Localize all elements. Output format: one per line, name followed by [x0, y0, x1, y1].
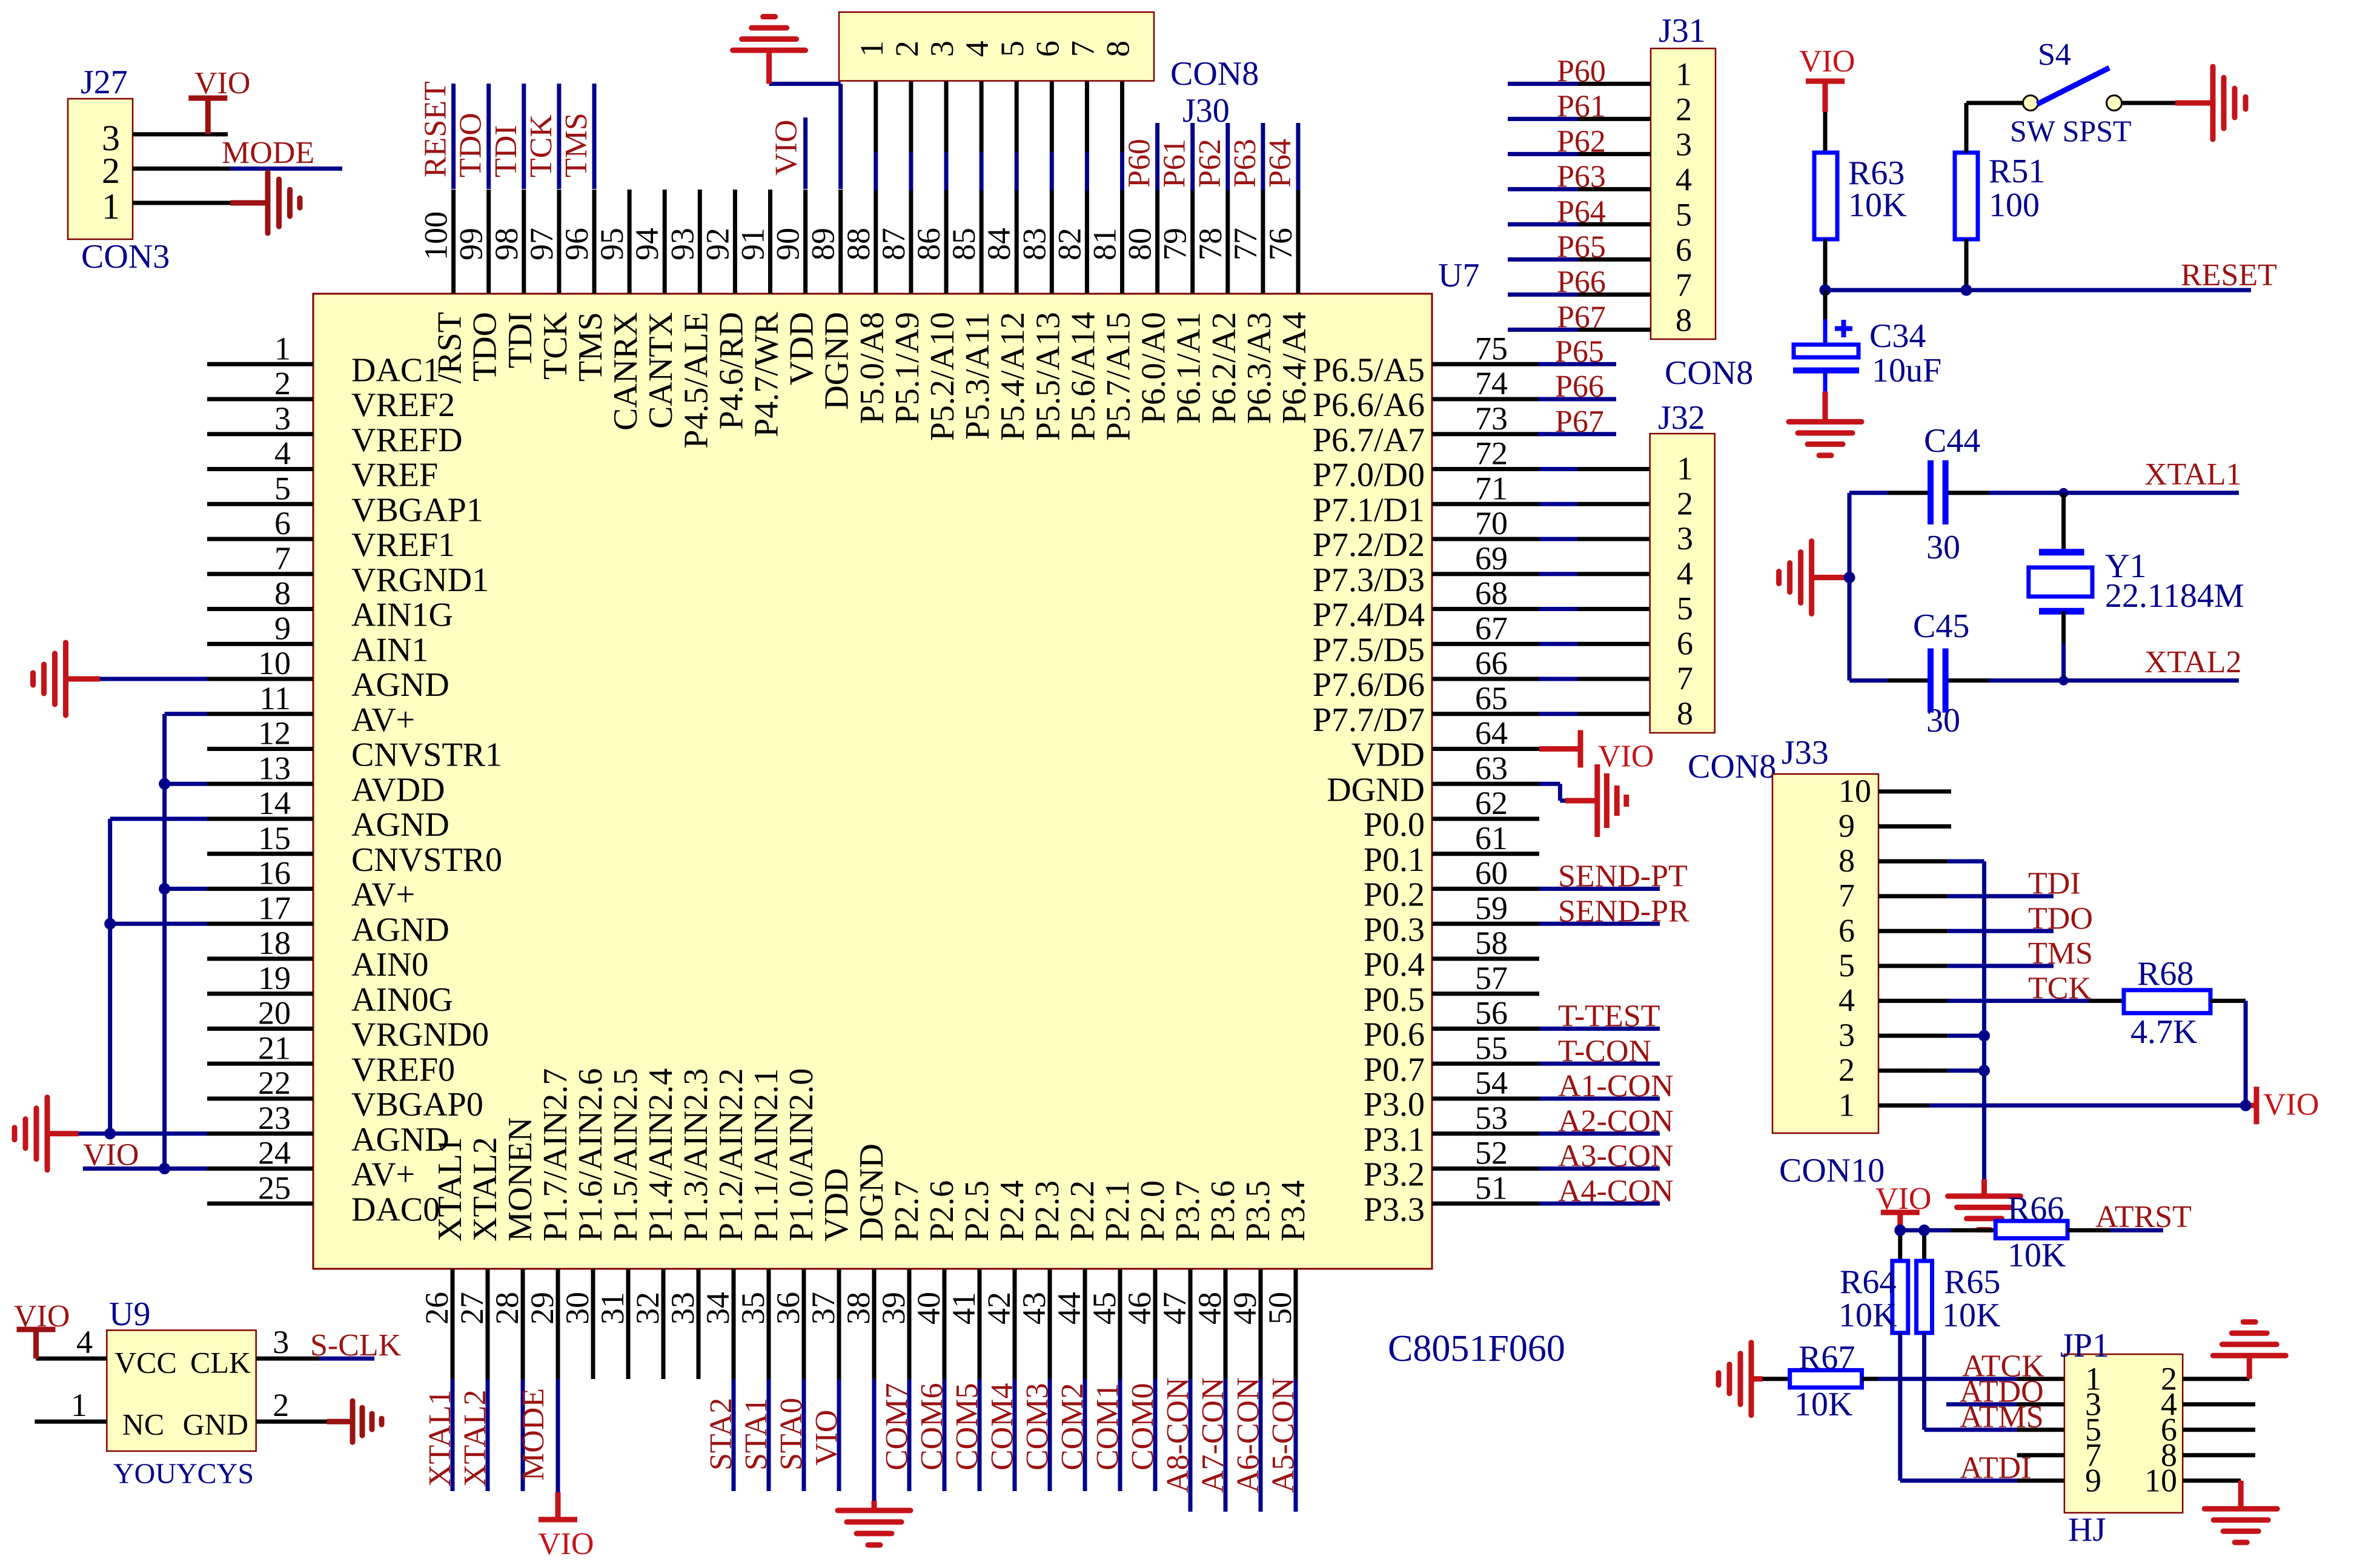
svg-text:15: 15	[258, 820, 291, 856]
ground (left of pin 23)	[15, 1097, 79, 1170]
J33 pin number 5	[1838, 947, 1855, 984]
wire J31 pin 3 net P62	[1508, 152, 1651, 156]
svg-text:25: 25	[258, 1169, 291, 1206]
JP1 pin number 9	[2085, 1463, 2101, 1499]
ground (J27 pin 1)	[230, 173, 300, 233]
svg-text:J31: J31	[1659, 12, 1706, 50]
junction on AV+ rail row16	[159, 883, 170, 895]
svg-text:VREF1: VREF1	[351, 526, 455, 564]
svg-text:AV+: AV+	[351, 701, 415, 739]
pin 62 P0.0 (right)	[1364, 785, 1539, 844]
net label VIO text (pin 29)	[538, 1527, 594, 1561]
pin 56 P0.6 (right)	[1364, 995, 1539, 1054]
J33 pin 2 wire	[1878, 1068, 1984, 1073]
svg-text:HJ: HJ	[2068, 1511, 2106, 1549]
pin 48 P3.6 (bottom)	[1192, 1180, 1242, 1379]
svg-text:6: 6	[1676, 231, 1692, 268]
svg-text:C34: C34	[1869, 317, 1926, 355]
J32 pin number 5	[1677, 590, 1693, 627]
wire J32 pin 7 to IC pin 66	[1539, 677, 1650, 681]
svg-text:2: 2	[1676, 91, 1692, 127]
net label TMS	[2028, 936, 2093, 971]
J31 pin number 7	[1676, 266, 1692, 303]
svg-text:P1.4/AIN2.4: P1.4/AIN2.4	[642, 1068, 680, 1242]
pin 39 P2.7 (bottom)	[875, 1180, 926, 1379]
svg-text:SW SPST: SW SPST	[2010, 114, 2132, 148]
svg-text:5: 5	[1838, 947, 1855, 984]
svg-text:VIO: VIO	[809, 1410, 844, 1466]
pin 14 AGND (left)	[207, 785, 449, 844]
svg-text:11: 11	[259, 680, 291, 716]
J33 pin 9 wire	[1878, 824, 1951, 829]
svg-text:P2.7: P2.7	[888, 1180, 926, 1242]
svg-text:VBGAP0: VBGAP0	[351, 1086, 483, 1123]
svg-text:10: 10	[1838, 773, 1871, 809]
pin 22 VBGAP0 (left)	[207, 1065, 483, 1123]
wire J32 pin 5 to IC pin 68	[1539, 607, 1650, 611]
svg-text:4: 4	[1838, 982, 1855, 1019]
pin 1 DAC1 (left)	[207, 330, 440, 389]
JP1 pin number 5	[2085, 1412, 2101, 1448]
wire R63 to RESET node	[1823, 239, 1828, 290]
J32 pin number 6	[1677, 625, 1693, 661]
wire net VIO on pin 37	[837, 1379, 841, 1491]
svg-text:19: 19	[258, 960, 291, 996]
svg-text:76: 76	[1262, 228, 1299, 260]
svg-text:7: 7	[274, 540, 291, 577]
svg-text:P2.5: P2.5	[958, 1180, 996, 1242]
wire AV+ rail	[83, 714, 207, 1169]
svg-text:RESET: RESET	[419, 81, 453, 177]
net label A6-CON (pin 49)	[1231, 1377, 1265, 1493]
svg-text:P5.6/A14: P5.6/A14	[1064, 312, 1102, 441]
JP1 pin number 7	[2085, 1437, 2101, 1474]
pin 100 /RST (top)	[418, 190, 469, 383]
wire RESET node to C34	[1823, 290, 1828, 319]
J33 pin number 4	[1838, 982, 1855, 1019]
net label P64	[1263, 139, 1298, 188]
svg-text:TDI: TDI	[502, 312, 539, 368]
wire JP1 pin 3 net ATDO	[1946, 1402, 2064, 1406]
wire DGND pin 63 to ground	[1539, 784, 1565, 801]
svg-text:VIO: VIO	[194, 66, 250, 101]
svg-text:P4.6/RD: P4.6/RD	[712, 312, 750, 430]
pin 23 AGND (left)	[207, 1100, 449, 1159]
net label P67	[1555, 405, 1604, 439]
wire net TMS on pin 96	[592, 84, 597, 189]
power VIO (R64/R65 top)	[1881, 1212, 1920, 1231]
wire J30 pin 2 to IC pin 87	[909, 81, 913, 191]
label R65	[1944, 1263, 2000, 1301]
svg-text:R66: R66	[2008, 1190, 2064, 1228]
wire ground to R67	[1762, 1377, 1789, 1381]
ground (below J33 rail)	[1948, 1179, 2021, 1229]
wire XTAL2 row	[1849, 678, 2239, 683]
svg-text:4: 4	[959, 41, 995, 57]
svg-text:/RST: /RST	[431, 312, 469, 383]
JP1 pin 2 wire to ground	[2183, 1377, 2249, 1381]
svg-text:TDO: TDO	[454, 113, 488, 177]
svg-text:A3-CON: A3-CON	[1558, 1139, 1674, 1174]
J33 pin 6 wire net TDO	[1878, 929, 2054, 933]
wire J31 pin 2 net P61	[1508, 117, 1651, 121]
svg-text:P1.0/AIN2.0: P1.0/AIN2.0	[783, 1068, 820, 1242]
svg-text:P3.2: P3.2	[1364, 1156, 1425, 1194]
svg-text:7: 7	[1677, 660, 1693, 696]
svg-text:56: 56	[1475, 995, 1508, 1031]
wire net RESET on pin 100	[451, 84, 456, 189]
svg-text:P1.1/AIN2.1: P1.1/AIN2.1	[748, 1068, 785, 1242]
svg-text:80: 80	[1122, 228, 1158, 260]
net label TDI	[2028, 867, 2081, 901]
J30 pin number 6	[1029, 41, 1066, 57]
J31 pin number 6	[1676, 231, 1692, 268]
svg-text:77: 77	[1227, 228, 1264, 260]
pin 88 P5.0/A8 (top)	[840, 190, 891, 424]
pin 52 P3.2 (right)	[1364, 1135, 1539, 1194]
net label ATDI	[1960, 1451, 2031, 1486]
svg-text:3: 3	[924, 41, 960, 57]
wire net TCK on pin 97	[557, 84, 561, 189]
wire AGND rail	[79, 819, 208, 1134]
J31 pin number 3	[1676, 126, 1692, 162]
net label TDO	[2028, 901, 2093, 936]
J32 type CON8	[1688, 748, 1776, 786]
svg-text:VIO: VIO	[2263, 1087, 2319, 1122]
svg-text:P6.6/A6: P6.6/A6	[1313, 386, 1425, 424]
svg-text:91: 91	[735, 228, 771, 260]
pin 31 P1.5/AIN2.5 (bottom)	[594, 1068, 645, 1379]
wire crystal left rail	[1848, 493, 1852, 681]
svg-text:22.1184M: 22.1184M	[2105, 577, 2244, 615]
pin 57 P0.5 (right)	[1364, 960, 1539, 1019]
wire J31 pin 4 net P63	[1508, 187, 1651, 191]
svg-text:57: 57	[1475, 960, 1508, 996]
svg-text:VCC: VCC	[114, 1346, 177, 1380]
svg-text:43: 43	[1016, 1292, 1052, 1325]
svg-text:XTAL1: XTAL1	[2144, 457, 2241, 492]
net label S-CLK	[310, 1328, 402, 1363]
svg-text:P6.5/A5: P6.5/A5	[1313, 351, 1425, 389]
pin 35 P1.1/AIN2.1 (bottom)	[735, 1068, 785, 1379]
svg-text:28: 28	[489, 1292, 525, 1325]
svg-text:AV+: AV+	[351, 876, 415, 914]
net label XTAL1 (pin 26)	[423, 1390, 457, 1487]
wire stub on pin 28 MONEN	[521, 1379, 525, 1491]
svg-text:P64: P64	[1263, 139, 1298, 188]
svg-text:90: 90	[770, 228, 806, 260]
svg-text:8: 8	[1676, 302, 1692, 338]
pin 16 AV+ (left)	[207, 855, 415, 914]
J27 designator	[81, 64, 128, 101]
net label VIO (AV+ rail)	[83, 1138, 139, 1173]
value 100 (R51)	[1989, 187, 2040, 224]
pin 81 P5.7/A15 (top)	[1087, 190, 1138, 441]
J33 pin number 2	[1838, 1052, 1855, 1088]
wire R66 to ATRST	[2067, 1228, 2163, 1232]
wire net STA0 on pin 36	[802, 1379, 806, 1491]
svg-text:A6-CON: A6-CON	[1231, 1377, 1265, 1493]
svg-text:87: 87	[875, 228, 912, 260]
svg-text:10K: 10K	[1838, 1297, 1897, 1334]
svg-text:10uF: 10uF	[1872, 352, 1941, 389]
svg-text:AIN0G: AIN0G	[351, 981, 453, 1019]
wire net COM5 on pin 41	[978, 1379, 982, 1491]
svg-text:3: 3	[1838, 1017, 1855, 1053]
svg-text:CANTX: CANTX	[642, 312, 680, 429]
svg-text:C45: C45	[1913, 607, 1969, 645]
label Y1	[2105, 547, 2146, 585]
net label P66 (J31)	[1557, 265, 1606, 299]
svg-text:YOUYCYS: YOUYCYS	[113, 1458, 254, 1490]
pin 78 P6.2/A2 (top)	[1192, 190, 1243, 424]
pin 82 P5.6/A14 (top)	[1051, 190, 1102, 441]
junction on AGND rail row23	[104, 1128, 116, 1139]
svg-text:10: 10	[258, 645, 291, 681]
pin 18 AIN0 (left)	[207, 925, 429, 984]
svg-text:100: 100	[418, 211, 454, 260]
net label VIO text (R63)	[1799, 44, 1855, 79]
pin 47 P3.7 (bottom)	[1156, 1180, 1207, 1379]
net label ATRST	[2095, 1200, 2192, 1234]
pin 45 P2.1 (bottom)	[1086, 1180, 1136, 1379]
wire VIO node R64/R65/R66	[1900, 1230, 1996, 1261]
svg-text:50: 50	[1262, 1292, 1298, 1325]
wire R51 to RESET node	[1964, 239, 1969, 290]
J30 pin number 8	[1100, 41, 1136, 57]
pin 36 P1.0/AIN2.0 (bottom)	[770, 1068, 820, 1379]
J32 designator	[1658, 399, 1705, 437]
svg-text:P66: P66	[1557, 265, 1606, 299]
pin 33 P1.3/AIN2.3 (bottom)	[665, 1068, 715, 1379]
junction on AV+ rail row13	[159, 778, 170, 790]
pin 44 P2.2 (bottom)	[1051, 1180, 1101, 1379]
J33 pin 3 wire	[1878, 1034, 1984, 1038]
svg-text:TDO: TDO	[2028, 901, 2093, 936]
J33 pin 10 wire	[1878, 789, 1951, 793]
pin 41 P2.5 (bottom)	[946, 1180, 996, 1379]
pin 99 TDO (top)	[453, 190, 504, 382]
connector J32 CON8 body	[1650, 434, 1715, 733]
pin 30 P1.6/AIN2.6 (bottom)	[559, 1068, 609, 1379]
wire VIO stub on pin 90 VDD	[803, 117, 807, 189]
svg-text:21: 21	[258, 1030, 291, 1066]
value 30 (C45)	[1926, 702, 1960, 739]
pin 8 AIN1G (left)	[207, 575, 453, 634]
svg-text:CLK: CLK	[190, 1346, 251, 1380]
ground (right of pin 63)	[1565, 764, 1626, 837]
svg-text:30: 30	[1926, 702, 1960, 739]
svg-text:82: 82	[1051, 228, 1087, 260]
J33 pin number 8	[1838, 842, 1855, 879]
JP1 pin number 1	[2085, 1361, 2101, 1397]
wire S4 to ground	[2122, 101, 2177, 105]
J32 pin number 8	[1677, 695, 1693, 732]
svg-text:8: 8	[1100, 41, 1136, 57]
crystal Y1	[2029, 493, 2092, 681]
wire J30 pin 8 to IC pin 81	[1120, 81, 1124, 191]
pin 20 VRGND0 (left)	[207, 995, 489, 1054]
svg-text:STA1: STA1	[739, 1398, 774, 1470]
U9 pin 3 CLK wire S-CLK	[190, 1324, 374, 1380]
svg-text:R65: R65	[1944, 1263, 2000, 1301]
pin 87 P5.1/A9 (top)	[875, 190, 926, 424]
svg-text:6: 6	[1677, 625, 1693, 661]
label R64	[1840, 1263, 1896, 1301]
svg-text:51: 51	[1475, 1169, 1508, 1206]
svg-text:24: 24	[258, 1135, 291, 1171]
JP1 pin number 2	[2161, 1361, 2177, 1397]
svg-text:P6.4/A4: P6.4/A4	[1276, 312, 1313, 424]
svg-text:60: 60	[1475, 855, 1508, 892]
svg-text:P2.0: P2.0	[1134, 1180, 1172, 1242]
J31 pin number 8	[1676, 302, 1692, 338]
svg-text:30: 30	[1926, 529, 1960, 566]
svg-text:4: 4	[1677, 555, 1693, 592]
J33 pin number 6	[1838, 912, 1855, 948]
JP1 pin number 6	[2161, 1412, 2177, 1448]
svg-text:7: 7	[1676, 266, 1692, 303]
svg-text:20: 20	[258, 995, 291, 1031]
svg-text:12: 12	[258, 715, 291, 752]
svg-text:P5.2/A10: P5.2/A10	[924, 312, 961, 441]
svg-text:5: 5	[1677, 590, 1693, 627]
svg-text:TMS: TMS	[572, 312, 609, 382]
net label XTAL2	[2144, 645, 2241, 680]
U9 pin 4 VCC wire	[36, 1324, 177, 1380]
svg-text:83: 83	[1016, 228, 1052, 260]
wire net COM3 on pin 43	[1048, 1379, 1052, 1491]
wire J32 pin 1 to IC pin 72	[1539, 467, 1650, 471]
J33 pin number 1	[1838, 1087, 1855, 1123]
junction J33 pin2 / rail	[1978, 1065, 1990, 1076]
J33 pin number 10	[1838, 773, 1871, 809]
svg-text:A8-CON: A8-CON	[1161, 1377, 1195, 1493]
svg-text:SEND-PR: SEND-PR	[1558, 894, 1689, 928]
resistor R68	[2124, 990, 2210, 1013]
svg-text:TMS: TMS	[559, 113, 594, 177]
junction crystal rail / ground	[1844, 572, 1855, 583]
net label A1-CON	[1558, 1069, 1674, 1103]
svg-text:10K: 10K	[1794, 1386, 1852, 1423]
svg-text:34: 34	[700, 1292, 736, 1325]
svg-text:CANRX: CANRX	[607, 312, 645, 431]
svg-text:2: 2	[274, 365, 291, 402]
net label P63	[1228, 139, 1262, 188]
junction VIO/R65	[1918, 1225, 1930, 1236]
pin 21 VREF0 (left)	[207, 1030, 455, 1088]
svg-text:61: 61	[1475, 820, 1508, 856]
svg-text:TDO: TDO	[466, 312, 504, 382]
svg-text:P7.2/D2: P7.2/D2	[1313, 526, 1425, 564]
J30 pin number 1	[854, 41, 890, 57]
svg-text:P1.7/AIN2.7: P1.7/AIN2.7	[537, 1068, 574, 1242]
net label COM6 (pin 40)	[915, 1383, 949, 1470]
svg-text:VIO: VIO	[1598, 739, 1654, 774]
svg-text:44: 44	[1051, 1292, 1087, 1325]
svg-text:69: 69	[1475, 540, 1508, 577]
svg-text:1: 1	[71, 1387, 87, 1423]
pin 71 P7.1/D1 (right)	[1313, 470, 1539, 529]
svg-text:99: 99	[453, 228, 489, 260]
svg-text:P7.3/D3: P7.3/D3	[1313, 561, 1425, 599]
svg-text:P4.7/WR: P4.7/WR	[748, 311, 786, 437]
svg-text:81: 81	[1087, 228, 1123, 260]
svg-text:P3.7: P3.7	[1169, 1180, 1207, 1242]
svg-text:P0.2: P0.2	[1364, 876, 1425, 914]
J33 pin 5 wire net TMS	[1878, 964, 2054, 968]
S4 type SW SPST	[2010, 114, 2132, 148]
wire J31 pin 8 net P67	[1508, 328, 1651, 332]
J30 pin number 3	[924, 41, 960, 57]
wire net RESET	[1825, 288, 2251, 293]
svg-text:10K: 10K	[2008, 1237, 2066, 1274]
svg-text:VIO: VIO	[14, 1299, 70, 1334]
svg-text:63: 63	[1475, 750, 1508, 786]
net label COM5 (pin 41)	[950, 1383, 984, 1470]
wire net T-TEST on pin 56	[1539, 1027, 1660, 1031]
svg-text:CON8: CON8	[1170, 55, 1259, 93]
pin 97 TCK (top)	[523, 190, 574, 380]
IC U7 designator	[1438, 257, 1479, 294]
net label VIO text (R64)	[1875, 1182, 1931, 1216]
svg-text:P5.4/A12: P5.4/A12	[994, 312, 1032, 441]
wire JP1 pin 7 stub	[2017, 1453, 2064, 1457]
value 10K (R67)	[1794, 1386, 1852, 1423]
value 10K (R64)	[1838, 1297, 1897, 1334]
svg-text:A7-CON: A7-CON	[1196, 1377, 1230, 1493]
net label TDI	[489, 125, 523, 177]
svg-text:P67: P67	[1555, 405, 1604, 439]
wire net COM0 on pin 46	[1153, 1379, 1158, 1491]
svg-text:53: 53	[1475, 1100, 1508, 1136]
svg-text:72: 72	[1475, 435, 1508, 472]
svg-text:1: 1	[1838, 1087, 1855, 1123]
wire net STA1 on pin 35	[767, 1379, 771, 1491]
label C45	[1913, 607, 1969, 645]
pin 77 P6.3/A3 (top)	[1227, 190, 1278, 424]
value 4.7K (R68)	[2130, 1013, 2197, 1051]
junction RESET/R51	[1961, 285, 1972, 296]
J30 pin number 2	[889, 41, 925, 57]
wire R51 top to switch S4	[1966, 103, 2023, 153]
svg-text:3: 3	[1677, 520, 1693, 557]
svg-text:CNVSTR1: CNVSTR1	[351, 736, 502, 774]
pin 85 P5.3/A11 (top)	[946, 190, 996, 440]
pin 40 P2.6 (bottom)	[910, 1180, 961, 1379]
svg-text:5: 5	[994, 41, 1030, 57]
J30 pin number 4	[959, 41, 995, 57]
wire J32 pin 3 to IC pin 70	[1539, 537, 1650, 541]
pin 64 VDD (right)	[1351, 715, 1539, 774]
svg-text:95: 95	[594, 228, 630, 260]
net label COM0 (pin 46)	[1126, 1383, 1160, 1470]
J32 pin number 3	[1677, 520, 1693, 557]
J27 pin 1 wire to ground	[102, 187, 230, 227]
svg-text:J27: J27	[81, 64, 128, 101]
svg-text:37: 37	[805, 1292, 841, 1325]
net label A4-CON	[1558, 1174, 1674, 1208]
svg-text:A2-CON: A2-CON	[1558, 1104, 1674, 1139]
value 10uF (C34)	[1872, 352, 1941, 389]
svg-text:R64: R64	[1840, 1263, 1896, 1301]
capacitor C44	[1931, 460, 1946, 524]
wire net P60 on pin 80	[1155, 123, 1159, 190]
net label A5-CON (pin 50)	[1266, 1377, 1301, 1493]
svg-text:R67: R67	[1799, 1339, 1855, 1377]
pin 92 P4.6/RD (top)	[699, 190, 750, 430]
svg-text:64: 64	[1475, 715, 1508, 752]
